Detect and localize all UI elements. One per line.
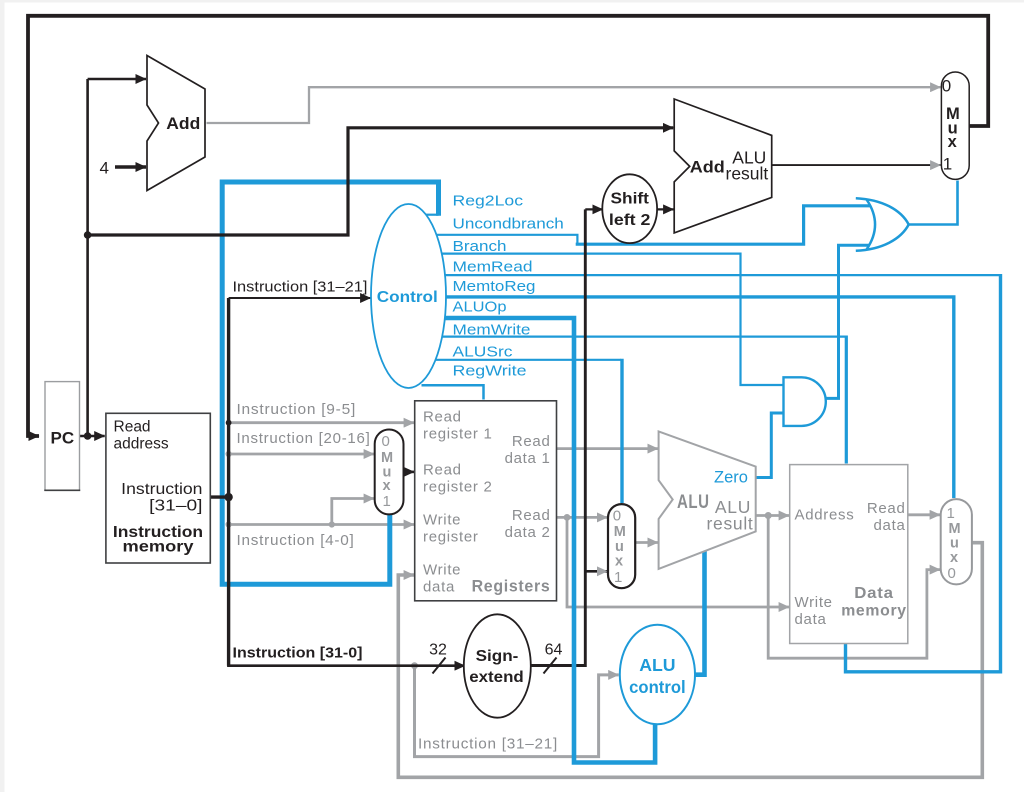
wire write-back from right mux to Write data xyxy=(398,543,982,778)
node junction instr20-16 xyxy=(226,451,232,457)
svg-text:Read: Read xyxy=(512,433,551,450)
node slash 64 xyxy=(544,658,557,674)
wire ALU control to ALU xyxy=(695,550,705,675)
wire MemRead to data memory bottom xyxy=(846,274,1001,672)
svg-text:Write: Write xyxy=(795,594,833,611)
wire sign-extend branch to ALUSrc mux input 1 xyxy=(585,570,607,573)
extender Sign-extend ellipse xyxy=(464,614,531,717)
wire data memory Read data to right mux input 1 xyxy=(908,513,940,516)
node Read data 2 junction xyxy=(564,514,571,521)
wire instruction memory output stub xyxy=(210,495,228,498)
wire into Add top input xyxy=(88,78,146,81)
svg-text:data: data xyxy=(874,517,906,534)
svg-text:memory: memory xyxy=(841,603,907,620)
memory Instruction memory box xyxy=(106,413,210,563)
svg-text:ALUSrc: ALUSrc xyxy=(453,344,514,361)
mux Reg2Loc (regfile read-register-2 mux) xyxy=(375,430,404,515)
wire ALU result to right mux input 0 xyxy=(768,516,940,659)
wire MemtoReg to right mux select xyxy=(440,297,954,498)
svg-text:0: 0 xyxy=(382,433,390,450)
svg-text:M: M xyxy=(614,524,626,540)
svg-text:control: control xyxy=(629,677,686,697)
svg-text:Instruction: Instruction xyxy=(121,481,202,498)
svg-text:ALU: ALU xyxy=(677,491,710,513)
wire Instruction [20-16] to regfile mux input 0 xyxy=(229,453,375,456)
wire Instruction [31-21] to ALU control xyxy=(415,666,619,757)
svg-text:Uncondbranch: Uncondbranch xyxy=(453,216,564,233)
wire branch adder result to top mux input 1 xyxy=(772,164,941,166)
wire PC value to branch adder xyxy=(86,128,673,235)
node ALU result junction xyxy=(765,512,772,519)
svg-text:4: 4 xyxy=(100,159,109,178)
svg-text:Read: Read xyxy=(114,419,151,436)
wire ALU result to data memory Address xyxy=(756,514,789,517)
svg-text:Sign-: Sign- xyxy=(476,648,519,665)
svg-text:0: 0 xyxy=(942,77,951,96)
node junction instr9-5 xyxy=(226,420,232,426)
svg-text:MemRead: MemRead xyxy=(453,259,533,276)
svg-text:Instruction [4-0]: Instruction [4-0] xyxy=(237,533,355,549)
wire ALUOp to ALU control xyxy=(440,318,655,763)
svg-text:left 2: left 2 xyxy=(609,212,651,229)
wire PC-mux-feedback top loop xyxy=(28,16,988,436)
control ALU control ellipse xyxy=(620,625,695,724)
node instruction output junction xyxy=(224,493,232,501)
svg-text:Data: Data xyxy=(854,585,893,602)
wire PC value up to Add xyxy=(86,79,89,436)
svg-text:Instruction [31-0]: Instruction [31-0] xyxy=(233,646,363,662)
svg-text:Add: Add xyxy=(166,115,200,133)
wire sign-extend output 64 up to shift-left-2 xyxy=(531,209,586,665)
svg-text:Instruction [9-5]: Instruction [9-5] xyxy=(237,402,357,418)
gate OR back arc xyxy=(867,200,875,250)
wire MemWrite to data memory top xyxy=(845,336,848,464)
svg-text:Control: Control xyxy=(377,289,438,306)
node Instruction [31-21] bottom junction xyxy=(411,662,418,669)
wire OR output to top mux select xyxy=(908,181,958,225)
svg-text:1: 1 xyxy=(943,155,952,174)
svg-text:Reg2Loc: Reg2Loc xyxy=(453,193,524,210)
svg-text:Write: Write xyxy=(423,562,461,579)
wire AND output to OR gate xyxy=(826,245,871,398)
svg-text:ALU: ALU xyxy=(639,655,675,675)
wire Uncondbranch to OR gate xyxy=(576,206,872,244)
wire Read data 2 to data memory Write data xyxy=(567,517,789,607)
svg-text:0: 0 xyxy=(613,508,621,525)
wire instruction vertical bus xyxy=(227,298,230,666)
mux ALUSrc xyxy=(608,504,635,588)
gate OR bottom edge xyxy=(856,225,909,251)
svg-text:Branch: Branch xyxy=(453,238,507,255)
svg-text:Instruction [31–21]: Instruction [31–21] xyxy=(418,737,558,753)
svg-text:Write: Write xyxy=(423,512,461,529)
svg-text:Instruction [31–21]: Instruction [31–21] xyxy=(233,280,368,296)
svg-text:Read: Read xyxy=(423,409,462,426)
svg-text:0: 0 xyxy=(948,565,956,582)
wire Zero to AND gate xyxy=(756,413,783,478)
svg-text:result: result xyxy=(726,164,769,184)
svg-text:register: register xyxy=(423,529,479,546)
mux top (PCSrc mux) xyxy=(941,72,969,179)
wire RegWrite to registers xyxy=(422,385,484,399)
wire MemRead from control xyxy=(438,274,999,276)
wire regfile mux output to Read register 2 xyxy=(404,471,415,474)
wire MemWrite from control xyxy=(438,336,845,338)
svg-text:1: 1 xyxy=(383,493,391,510)
wire Read data 1 to ALU xyxy=(557,447,659,450)
wire ALUSrc from control xyxy=(435,359,621,361)
alu ALU main xyxy=(659,431,756,569)
wire Instruction [4-0] to Write register xyxy=(229,523,415,526)
registers Register file box xyxy=(415,401,557,601)
svg-text:Add: Add xyxy=(690,159,725,177)
svg-text:x: x xyxy=(615,554,623,570)
svg-text:data: data xyxy=(795,611,827,628)
wire Instruction [31-21] into Control xyxy=(229,297,371,299)
svg-text:x: x xyxy=(948,133,958,151)
svg-text:1: 1 xyxy=(947,505,955,522)
register PC box bottom edge xyxy=(44,489,80,491)
svg-text:result: result xyxy=(707,514,754,534)
svg-text:Registers: Registers xyxy=(472,578,551,596)
svg-text:Read: Read xyxy=(867,500,906,517)
node junction instr4-0 branch xyxy=(329,521,335,527)
svg-text:32: 32 xyxy=(429,642,447,659)
node PC branch junction xyxy=(84,231,92,239)
svg-text:ALUOp: ALUOp xyxy=(453,299,507,316)
svg-text:MemtoReg: MemtoReg xyxy=(453,278,536,295)
wire Instruction [31-0] to sign-extend xyxy=(227,664,465,667)
control Control ellipse xyxy=(371,204,446,388)
mux MemtoReg (right write-back mux) xyxy=(941,499,972,584)
svg-text:Address: Address xyxy=(795,507,855,524)
wire Add output PC+4 to top mux input 0 xyxy=(207,87,941,123)
svg-text:PC: PC xyxy=(50,429,74,448)
svg-text:data 2: data 2 xyxy=(505,524,551,541)
memory Data memory box xyxy=(790,465,908,644)
wire PC output to instruction memory xyxy=(80,435,105,438)
wire Instruction [9-5] to Read register 1 xyxy=(229,421,415,424)
svg-text:1: 1 xyxy=(614,569,622,586)
svg-text:data 1: data 1 xyxy=(505,450,551,467)
svg-text:register 1: register 1 xyxy=(423,426,493,443)
svg-text:x: x xyxy=(950,550,958,566)
shifter Shift left 2 ellipse xyxy=(602,174,657,243)
svg-text:extend: extend xyxy=(469,669,524,686)
wire Uncondbranch from control xyxy=(431,235,577,244)
adder Add (PC+4) xyxy=(147,56,205,191)
svg-text:data: data xyxy=(423,579,455,596)
svg-text:MemWrite: MemWrite xyxy=(453,322,531,339)
svg-text:Instruction [20-16]: Instruction [20-16] xyxy=(237,431,371,447)
node PC output junction xyxy=(84,432,92,440)
wire Instruction [4-0] branch to regfile mux input 1 xyxy=(332,499,374,525)
register PC box xyxy=(45,382,80,491)
gate OR top edge xyxy=(856,198,909,224)
wire constant 4 into Add xyxy=(115,165,146,168)
wire Reg2Loc to regfile mux select xyxy=(222,182,438,584)
svg-text:[31–0]: [31–0] xyxy=(149,497,202,514)
wire Read data 2 to ALUSrc mux input 0 xyxy=(557,516,608,519)
wire ALUSrc mux output to ALU xyxy=(635,541,658,544)
svg-text:Shift: Shift xyxy=(611,191,650,208)
svg-text:register 2: register 2 xyxy=(423,479,493,496)
svg-text:x: x xyxy=(383,478,391,494)
gate AND (branch and zero) xyxy=(784,377,826,426)
node slash 32 xyxy=(433,658,446,674)
node junction instr4-0 xyxy=(226,521,232,527)
svg-text:memory: memory xyxy=(123,538,194,555)
gate OR (branch select) body fill xyxy=(867,200,908,249)
wire Branch to AND gate xyxy=(435,254,783,385)
adder Add ALU result (branch) xyxy=(674,99,772,233)
wire ALUSrc to ALUSrc mux select xyxy=(620,359,623,503)
svg-text:address: address xyxy=(114,435,169,452)
wire into shift-left-2 xyxy=(585,208,603,210)
wire shift-left-2 to branch adder xyxy=(657,208,674,210)
wire Reg2Loc from control xyxy=(424,214,439,216)
svg-text:Zero: Zero xyxy=(714,469,748,487)
svg-text:Read: Read xyxy=(423,462,462,479)
svg-text:Read: Read xyxy=(512,507,551,524)
svg-text:RegWrite: RegWrite xyxy=(453,363,527,380)
svg-text:64: 64 xyxy=(545,642,563,659)
